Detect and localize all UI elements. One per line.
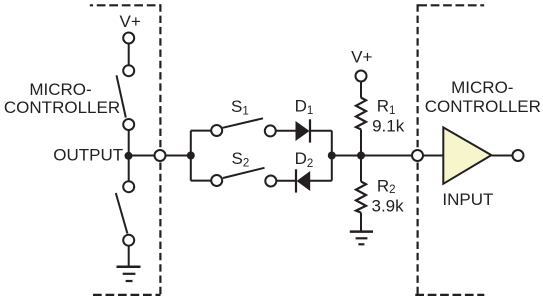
svg-text:9.1k: 9.1k — [372, 117, 405, 136]
svg-text:OUTPUT: OUTPUT — [53, 145, 123, 164]
svg-text:CONTROLLER: CONTROLLER — [4, 98, 120, 117]
svg-text:V+: V+ — [351, 48, 372, 67]
svg-text:MICRO-: MICRO- — [451, 78, 513, 97]
svg-text:V+: V+ — [120, 12, 141, 31]
svg-text:INPUT: INPUT — [442, 190, 493, 209]
svg-text:MICRO-: MICRO- — [29, 80, 91, 99]
svg-text:CONTROLLER: CONTROLLER — [425, 97, 541, 116]
svg-text:3.9k: 3.9k — [372, 197, 405, 216]
